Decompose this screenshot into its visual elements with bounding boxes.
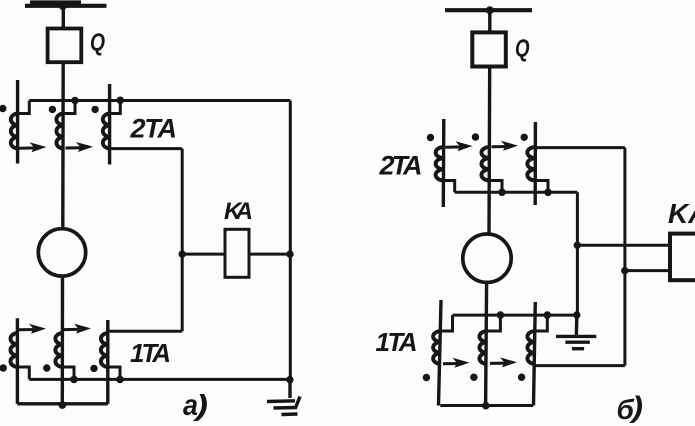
CT 2TA phase C secondary winding (a) <box>103 114 110 149</box>
CT 2TA phase B secondary winding (b) <box>481 147 489 181</box>
wire: KA right connection (a) <box>249 253 290 256</box>
svg-text:2TA: 2TA <box>130 114 178 144</box>
polarity dot 2TA phase C (a) <box>91 106 98 113</box>
junction dot neutral (b) <box>482 402 490 410</box>
wire: 2TA winding C top lead (a) <box>110 101 121 114</box>
ground symbol (b) <box>556 315 596 349</box>
junction dot KA right (a) <box>286 250 293 257</box>
svg-text:KA: KA <box>224 198 253 225</box>
polarity dot 1TA phase A (b) <box>423 374 430 381</box>
phase C conductor through 1TA (a) <box>106 320 109 404</box>
wire: machine to 1TA phase B (a) <box>61 278 65 404</box>
machine stator winding (circle) (a) <box>38 229 85 276</box>
busbar (section b) <box>445 8 532 12</box>
polarity dot 1TA phase C (b) <box>518 374 525 381</box>
CT 1TA phase C secondary winding (a) <box>101 333 108 367</box>
svg-text:1TA: 1TA <box>376 327 418 357</box>
junction dot (b) <box>497 311 505 319</box>
wire: 1TA winding C top lead (b) <box>534 315 547 331</box>
svg-text:KA: KA <box>668 198 695 229</box>
wire: branch down to 1TA winding C top lead (a) <box>108 330 182 333</box>
junction dot KA lower branch (b) <box>621 267 628 274</box>
wire: 2TA secondary bus (b) <box>455 191 578 194</box>
wire: busbar to Q (b) <box>488 10 491 32</box>
wire: 2TA winding C bottom lead to KA branch (a) <box>110 147 183 150</box>
svg-text:Q: Q <box>90 29 105 57</box>
wire: 1TA winding B bottom lead (a) <box>62 367 74 379</box>
wire: left branch down to ground node (b) <box>576 192 579 315</box>
CT 2TA phase A secondary winding (a) <box>11 114 18 149</box>
wire: 1TA winding C bottom lead (a) <box>108 367 120 379</box>
current arrow 1TA B-C (a) <box>64 324 91 334</box>
wire: busbar to Q (a) <box>62 6 65 29</box>
phase A conductor through 1TA (a) <box>16 318 19 404</box>
phase C conductor through 1TA (b) <box>534 302 536 406</box>
relay KA coil (a) <box>225 229 249 277</box>
polarity dot 2TA phase A (b) <box>427 134 434 141</box>
phase A primary conductor through 2TA (a) <box>16 80 19 164</box>
junction dot: busbar tap (a) <box>59 2 67 10</box>
circuit breaker Q (a) <box>48 29 82 63</box>
svg-text:1TA: 1TA <box>130 338 171 368</box>
svg-text:2TA: 2TA <box>379 151 423 181</box>
wire: 1TA winding C bottom lead to right branch (b) <box>535 364 625 367</box>
wire: KA upper connection (b) <box>577 244 670 247</box>
busbar (section a) <box>25 3 107 6</box>
polarity dot 1TA phase B (a) <box>43 364 50 371</box>
current arrow 2TA A-B (b) <box>446 141 473 151</box>
CT 1TA phase A secondary winding (b) <box>433 331 440 364</box>
machine neutral wire (b) <box>440 404 533 407</box>
relay KA coil (b) <box>670 234 695 281</box>
polarity dot 1TA phase C (a) <box>90 365 97 372</box>
CT 2TA phase C secondary winding (b) <box>527 147 535 181</box>
junction dot KA upper branch (b) <box>574 242 581 249</box>
machine neutral wire (a) <box>17 402 107 405</box>
phase A conductor through 1TA (b) <box>439 300 442 406</box>
polarity dot 1TA phase B (b) <box>470 374 477 381</box>
wire: 2TA winding C top lead to right branch (b) <box>535 146 625 149</box>
junction dot ground node (b) <box>573 311 580 318</box>
CT 1TA phase C secondary winding (b) <box>527 331 534 364</box>
junction dot (b) <box>544 311 552 319</box>
junction dot neutral (a) <box>58 401 66 409</box>
current arrow 1TA A-B (a) <box>19 324 46 334</box>
junction dot KA left (a) <box>179 250 186 257</box>
wire: 2TA winding B top lead (a) <box>63 101 75 114</box>
junction dot (a) <box>116 376 124 384</box>
junction dot (b) <box>498 189 506 197</box>
polarity dot 2TA phase B (a) <box>49 106 56 113</box>
current arrow 2TA B-C (b) <box>492 141 519 151</box>
svg-text:Q: Q <box>515 35 530 63</box>
CT 2TA phase A secondary winding (b) <box>436 147 444 181</box>
polarity dot 1TA phase A (a) <box>0 364 7 371</box>
current arrow 2TA B-C (a) <box>66 142 94 152</box>
wire: 1TA winding B top lead (b) <box>486 315 500 331</box>
current arrow 1TA A-B (b) <box>443 358 470 368</box>
wire: left vertical branch to KA and down to 1TA (a) <box>181 149 184 332</box>
ground symbol (a) <box>267 380 300 415</box>
wire: 2TA secondary bus to right branch (a) <box>29 99 290 102</box>
phase A primary conductor through 2TA (b) <box>442 119 446 207</box>
CT 1TA phase B secondary winding (b) <box>479 331 486 364</box>
machine stator winding (circle) (b) <box>463 234 511 282</box>
CT 2TA phase B secondary winding (a) <box>56 114 63 149</box>
CT 1TA phase A secondary winding (a) <box>10 333 17 367</box>
junction dot: busbar tap (b) <box>486 6 494 14</box>
phase C primary conductor through 2TA (b) <box>534 122 538 205</box>
wire: 1TA winding A bottom lead (a) <box>17 367 29 379</box>
wire: machine to 1TA phase B (b) <box>486 282 487 406</box>
wire: right branch down to 1TA winding C (b) <box>623 148 626 366</box>
junction dot (a) <box>71 97 79 105</box>
wire: Q to machine, phase B primary (a) <box>61 62 65 228</box>
current arrow 1TA B-C (b) <box>490 357 517 367</box>
wire: 1TA secondary bus to ground node (b) <box>453 314 577 317</box>
junction dot (b) <box>544 189 552 197</box>
current arrow 2TA A-B (a) <box>19 142 47 152</box>
wire: 1TA winding A top lead (b) <box>440 315 453 331</box>
wire: KA left connection (a) <box>182 253 225 256</box>
junction dot (a) <box>70 376 78 384</box>
wire: 1TA secondary bus to ground node (a) <box>29 378 290 381</box>
junction dot (a) <box>117 97 125 105</box>
junction dot ground node (a) <box>286 376 293 383</box>
polarity dot 2TA phase C (b) <box>521 134 528 141</box>
wire: Q to machine, phase B primary (b) <box>487 67 491 235</box>
polarity dot 2TA phase B (b) <box>472 133 479 140</box>
wire: 2TA winding C bottom lead (b) <box>535 181 548 193</box>
wire: 2TA winding A top lead to secondary bus (a) <box>18 101 30 114</box>
wire: 2TA winding A bottom lead (b) <box>444 181 455 193</box>
polarity dot 2TA phase A (a) <box>0 105 7 112</box>
CT 1TA phase B secondary winding (a) <box>55 333 62 367</box>
wire: 2TA winding B bottom lead (b) <box>489 181 502 193</box>
wire: right vertical branch from 2TA bus to ground (a) <box>289 101 292 381</box>
circuit breaker Q (b) <box>472 32 506 66</box>
phase C primary conductor through 2TA (a) <box>108 84 111 165</box>
wire: KA lower connection (b) <box>625 269 670 272</box>
